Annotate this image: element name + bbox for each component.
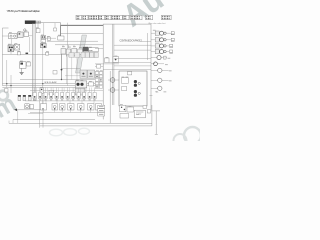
junction block dash	[82, 75, 86, 77]
stub on panel vertical	[150, 95, 153, 97]
battery drop foot	[155, 133, 158, 135]
horn box	[25, 104, 29, 109]
pod dark dot 4	[70, 108, 71, 109]
wire stub below switch	[37, 23, 39, 28]
fuse cell a1	[95, 72, 98, 75]
wire top of right panel	[103, 23, 151, 25]
turn signal rear wire left	[151, 79, 158, 81]
terminal strip small boxes row	[33, 92, 96, 98]
brake switch dark mark	[20, 63, 23, 65]
pod bottom ticks	[44, 110, 99, 112]
terminal box 8	[72, 92, 75, 98]
svg-text:W B Ch Br/W: W B Ch Br/W	[45, 82, 57, 84]
handle switch contact 1	[10, 35, 12, 37]
connector grey box row 6	[94, 52, 98, 57]
legend text marks	[77, 16, 170, 19]
panel vertical x112	[112, 24, 114, 105]
turn signal front circle	[158, 68, 162, 72]
tie wire 2	[68, 45, 70, 48]
CDI inner box 2	[122, 86, 127, 90]
svg-text:CONTINUED ON PAGE 2: CONTINUED ON PAGE 2	[120, 40, 143, 43]
brake switch box	[20, 62, 27, 69]
connector right of battery	[147, 110, 150, 113]
wire y75 short	[65, 75, 80, 77]
wire vertical battery drop	[155, 111, 157, 134]
ignition coil secondary box	[41, 39, 46, 42]
lamp row 1 tail wire	[166, 32, 171, 34]
wire to lamps y58	[114, 58, 151, 60]
wire color legend cell 9	[146, 15, 153, 20]
inline fuse at x55	[54, 28, 57, 31]
wire second feed	[61, 33, 104, 35]
turn signal front wire right	[162, 69, 169, 71]
drop wire v2	[66, 56, 68, 84]
lamp row 5 tail wire	[161, 57, 167, 59]
switch pod 1	[41, 104, 47, 110]
lamp row 3 terminal	[170, 44, 173, 47]
diode unit mark	[15, 45, 18, 49]
terminal box 4	[50, 92, 53, 98]
lamp row 4 terminal	[170, 50, 173, 53]
panel vertical x151	[150, 24, 152, 110]
handle switch box	[9, 34, 18, 39]
pod dark dot 2	[54, 108, 55, 109]
wire color legend cell 5	[105, 15, 111, 20]
lamp row 5 wire	[151, 57, 157, 59]
wire stub top x55	[54, 23, 56, 28]
horn circle	[26, 105, 29, 108]
wire color legend cell 10	[162, 15, 172, 20]
ground	[20, 73, 24, 75]
junction dot x62	[61, 69, 63, 71]
ignition coil dot 1	[42, 36, 44, 38]
panel vertical x152 bottom	[151, 105, 153, 126]
lamp row 2 bulb small	[164, 39, 166, 41]
stack dash 1	[99, 106, 103, 108]
fuse cell a2	[99, 72, 102, 75]
lamp row 2 bulb	[160, 38, 164, 42]
drop wire v6	[76, 57, 78, 81]
inline dark tick on wire	[26, 53, 29, 55]
fuse cell dot 2	[100, 79, 101, 80]
panel vertical x113	[113, 24, 115, 105]
junction dot a	[42, 83, 43, 84]
wire vertical x42	[42, 41, 44, 107]
lamp row 3 socket	[155, 44, 159, 48]
pod dark dot 6	[90, 108, 91, 109]
CDI terminal circle 1	[134, 80, 137, 83]
fuse cell b2	[99, 75, 102, 78]
connector grey box row 3	[81, 52, 85, 57]
wire color legend cell 8	[130, 15, 142, 20]
relay box mid dot	[115, 59, 117, 61]
pod dark dot 1	[42, 108, 43, 109]
terminal box 7	[66, 92, 69, 98]
relay box mid panel	[113, 57, 119, 63]
lamp row 1 bulb	[160, 31, 164, 35]
wire drop from horn feed	[17, 110, 19, 124]
wire vertical x43	[42, 95, 44, 128]
main switch (dark box top)	[25, 21, 36, 24]
terminal box 9	[77, 92, 80, 98]
fuse cell c1	[95, 79, 98, 82]
relay terminal 1	[9, 47, 11, 49]
rectifier block 3	[72, 49, 77, 56]
diode unit box	[14, 44, 19, 50]
connector grey box row 4	[85, 52, 89, 57]
horn button box	[24, 32, 29, 37]
wire color legend cell 2	[83, 15, 88, 20]
wire bend at x60	[60, 23, 62, 26]
side stand dot	[41, 89, 43, 91]
wire mid horizontal 1	[47, 40, 98, 42]
connector small above fuse column	[97, 65, 101, 69]
junction dot c	[10, 85, 11, 86]
connector grey box row 2	[75, 53, 80, 58]
border join tick left 2	[8, 121, 10, 124]
spark plug dot 1	[41, 44, 43, 46]
wire vertical x62	[61, 54, 63, 79]
tie band A wire 4	[81, 99, 83, 104]
flasher unit 2 with cap	[23, 95, 26, 100]
wire switch to relay	[11, 39, 13, 45]
pickup coil box	[89, 82, 94, 86]
terminal ticks	[35, 88, 95, 93]
starter relay box	[8, 45, 14, 52]
lamp row 6 tail wire	[157, 63, 164, 65]
junction block grey 2 dot	[90, 73, 92, 75]
wire color legend cell 3	[89, 15, 98, 20]
tail lamp wire left	[151, 87, 158, 89]
flasher unit 3 with cap	[28, 95, 31, 100]
junction block grey 2	[87, 70, 94, 78]
side stand switch box	[40, 88, 43, 93]
terminal box 3	[44, 92, 47, 98]
wire horizontal y79	[20, 79, 95, 81]
switch pod 7	[96, 104, 102, 110]
connector 2 beside main switch	[38, 21, 40, 23]
fuse box below switch	[36, 29, 40, 33]
CDI terminal ring a	[138, 82, 140, 84]
wire y68 center	[62, 68, 81, 70]
fuse cell b1	[95, 75, 98, 78]
terminal box 6	[61, 92, 64, 98]
wire vertical to diode	[60, 25, 62, 36]
lamp row 6 bulb	[154, 62, 158, 66]
rectifier box bottom 2	[127, 107, 134, 112]
harness bus diagonal center	[76, 35, 87, 73]
svg-text:TAIL: TAIL	[155, 91, 159, 94]
junction block grey 1 dot	[82, 73, 84, 75]
connector stack box 1	[98, 105, 105, 108]
CDI inner box 1	[122, 78, 129, 84]
pilot circle above horn	[24, 29, 26, 31]
lamp row 6 wire	[151, 62, 155, 64]
regulator circle	[110, 88, 115, 93]
fine harness ticks	[37, 88, 92, 93]
wire y66 stub	[95, 65, 103, 67]
rectifier block 2	[66, 49, 71, 56]
earth connector box	[120, 113, 129, 118]
clutch switch box	[27, 62, 31, 66]
bottom border wire 2	[9, 122, 152, 124]
neutral switch box	[49, 90, 54, 95]
wire to lamps y50	[114, 49, 151, 51]
watermark letters bottom center	[50, 128, 90, 136]
svg-text:BATT: BATT	[136, 113, 142, 116]
CDI dark box	[83, 47, 88, 51]
turn signal rear circle	[158, 78, 162, 82]
battery plate line	[136, 111, 143, 113]
small box x53	[53, 71, 57, 75]
flasher unit 4 with cap	[33, 95, 36, 100]
arrow terminal	[14, 109, 17, 112]
wire label smudges	[34, 98, 96, 101]
wire color legend cell 7	[123, 15, 129, 20]
lamp row 2 wire	[151, 39, 155, 41]
horn connector	[30, 104, 33, 108]
watermark letters Au top right	[116, 0, 170, 34]
dimmer switch box	[18, 32, 24, 38]
dimmer switch dot	[19, 33, 21, 34]
wire stub y48 left of panel	[95, 47, 103, 49]
wire y62 panel	[109, 62, 151, 64]
stack dash 3	[99, 113, 103, 115]
CDI terminal circle 4	[134, 94, 137, 97]
handle switch contact 2	[14, 35, 16, 37]
CDI terminal circle 3	[134, 90, 137, 93]
switch pod 5	[78, 104, 85, 110]
wire vertical x29	[29, 37, 31, 52]
wire main feed dark	[61, 24, 104, 26]
diode box	[58, 36, 64, 40]
wire y69 panel	[103, 69, 151, 71]
connector grey box row 1	[69, 53, 74, 58]
wire coil to diode	[46, 37, 56, 39]
tie band A wire 1	[45, 99, 47, 104]
magneto coil 1	[76, 83, 79, 86]
lamp row 3 tail wire	[166, 45, 169, 47]
watermark letter p bottom right	[174, 134, 187, 147]
wire mid horizontal 2	[55, 44, 103, 46]
terminal dark dots	[34, 96, 96, 97]
legend cell separators	[94, 15, 137, 20]
switch pod circle 1	[53, 105, 56, 108]
switch pod row	[41, 104, 102, 110]
connector stack box 3	[98, 112, 105, 116]
watermark letter o bottom left	[0, 91, 8, 101]
junction dot d	[6, 83, 7, 84]
bottom band feed wire	[25, 100, 103, 102]
CDI top notch box	[128, 72, 132, 75]
switch pod circle 3	[69, 105, 72, 108]
tie wire 1	[62, 45, 64, 48]
spark plug dot 2	[44, 46, 46, 48]
lamp row 4 socket	[155, 49, 159, 53]
terminal box 10	[83, 92, 86, 98]
wire color legend cell 4	[99, 15, 105, 20]
starter motor wire	[108, 79, 119, 81]
lamp row 4 bulb small	[164, 50, 166, 52]
wire color legend cell 6	[112, 15, 123, 20]
magneto coil 2	[80, 83, 83, 86]
ignition coil box	[41, 36, 46, 39]
tie wire 3	[73, 45, 75, 48]
fuse cell d1	[95, 82, 98, 85]
lamp row 4 tail wire	[166, 51, 169, 53]
pod dark dot 3	[62, 108, 63, 109]
wire drop to ignition coil	[43, 23, 45, 36]
tie wire 4	[79, 45, 81, 48]
lamp row 3 bulb	[160, 44, 164, 48]
CDI terminal circle 2	[134, 84, 137, 87]
wire below horn	[28, 113, 43, 115]
connector grey box row 5	[90, 52, 94, 57]
fuse cell e2	[99, 86, 102, 89]
wire vertical x39	[39, 101, 41, 128]
terminal box 5	[55, 92, 58, 98]
battery box	[134, 110, 145, 118]
wire vertical x147	[147, 33, 149, 60]
wire vertical x6	[6, 60, 8, 88]
wire branch y41	[140, 40, 151, 42]
tie band A wire 5	[93, 99, 95, 104]
lamp row 1 wire	[151, 32, 155, 34]
wire vertical x11	[10, 75, 12, 93]
stack dash 2	[99, 109, 103, 111]
wire vertical right of diode	[66, 23, 68, 53]
switch pod circle 5	[89, 105, 92, 108]
terminal box 2	[39, 92, 42, 98]
svg-text:YB-50 ya 2T4 Elektroschaltplan: YB-50 ya 2T4 Elektroschaltplan	[7, 9, 41, 13]
svg-text:▪▪▪▪: ▪▪▪▪	[89, 50, 92, 52]
resistor small box left	[5, 89, 9, 93]
panel vertical x110	[109, 71, 111, 123]
wire horizontal y83	[2, 83, 98, 85]
lamp row 5 terminal	[164, 56, 167, 59]
battery feed wire	[151, 110, 160, 112]
rectifier block 4	[78, 49, 83, 55]
wire to ground	[21, 68, 23, 72]
wire vertical x11 drop	[10, 52, 12, 55]
condenser box	[48, 37, 51, 40]
switch pod 4	[68, 104, 75, 110]
terminal box 1	[33, 92, 36, 98]
switch pod circle 4	[79, 105, 82, 108]
turn signal rear wire right	[162, 79, 169, 81]
wire top horizontal	[36, 22, 61, 24]
harness bus vertical left	[32, 24, 35, 96]
rectifier bottom dot 2	[124, 109, 125, 110]
switch pod 2	[52, 104, 58, 110]
lamp row 4 bulb	[160, 50, 164, 54]
pod dark dot 5	[80, 108, 81, 109]
rectifier block 1	[61, 49, 66, 55]
panel vertical x103	[102, 24, 104, 119]
tie band A wire 2	[56, 99, 58, 104]
fuse cell e1	[95, 86, 98, 89]
turn signal front wire left	[151, 69, 158, 71]
tail lamp circle	[158, 86, 162, 90]
connector beside main switch	[36, 21, 38, 23]
inline connector on wire	[46, 52, 49, 55]
fuse cell c2	[99, 79, 102, 82]
fuse cell dot 1	[96, 76, 97, 77]
fuse block column	[95, 72, 102, 89]
lamp row 5 bulb	[157, 56, 161, 60]
terminal box 11	[88, 92, 91, 98]
spark plug cluster	[41, 43, 47, 47]
bottom border wire 1	[13, 118, 95, 120]
terminal box 12	[93, 92, 96, 98]
relay terminal 3	[10, 49, 12, 51]
watermark letter o bottom right	[184, 127, 201, 144]
wire y63 into CDI	[95, 63, 119, 65]
AC magneto box	[75, 81, 87, 88]
wire y65 panel	[114, 65, 151, 67]
lamp row 1 bulb small	[164, 32, 166, 34]
border join tick left	[12, 119, 14, 123]
lamp row 3 wire	[151, 45, 155, 47]
wire y90	[30, 89, 103, 91]
CDI terminal ring b	[138, 92, 140, 94]
switch pod 3	[60, 104, 66, 110]
bottom band lower wire	[30, 111, 103, 113]
wire left edge vertical	[1, 28, 3, 86]
lamp row 2 socket	[155, 38, 159, 42]
tie band A wire 3	[69, 99, 71, 104]
drop wire v5	[71, 57, 73, 79]
resistor wide box	[89, 48, 99, 52]
component label smudges	[8, 27, 174, 107]
wire into handle switch	[2, 35, 8, 37]
relay terminal 2	[11, 47, 13, 49]
lamp row 2 terminal	[171, 38, 174, 41]
fuse cell dot 3	[96, 86, 97, 87]
junction dot b	[61, 79, 62, 80]
flasher unit 1 with cap	[18, 95, 21, 100]
fuse cell d2	[99, 82, 102, 85]
switch pod circle 2	[61, 105, 64, 108]
rectifier bottom dot 1	[121, 107, 122, 108]
lamp row 3 bulb small	[164, 45, 166, 47]
starter motor circle	[110, 78, 115, 83]
ignition coil dot 2	[44, 36, 46, 38]
wire switch cluster to bus	[29, 35, 33, 37]
switch pod 6	[88, 104, 95, 110]
wire horn feed	[17, 109, 43, 111]
junction block dash 2	[89, 75, 93, 77]
wire horizontal y85	[2, 85, 98, 87]
connector stack box 2	[98, 109, 105, 112]
wire color legend cell 1	[76, 15, 171, 20]
drop wire v3	[66, 57, 68, 86]
small connector box right	[143, 106, 147, 109]
bottom border wire 3	[40, 125, 152, 127]
junction block grey 1	[80, 70, 87, 78]
magneto lower box	[75, 88, 85, 95]
wire long horizontal y54	[2, 53, 69, 55]
lamp row 2 tail wire	[166, 39, 171, 41]
rectifier box bottom	[119, 105, 126, 112]
wire left edge horizontal	[2, 27, 8, 29]
lamp row 1 terminal	[171, 32, 174, 35]
regulator wire	[108, 89, 119, 91]
CDI unit large box	[119, 71, 147, 106]
wire horizontal y87	[2, 87, 85, 89]
wire to lamps y45	[114, 44, 151, 46]
lamp row 4 wire	[151, 51, 155, 53]
